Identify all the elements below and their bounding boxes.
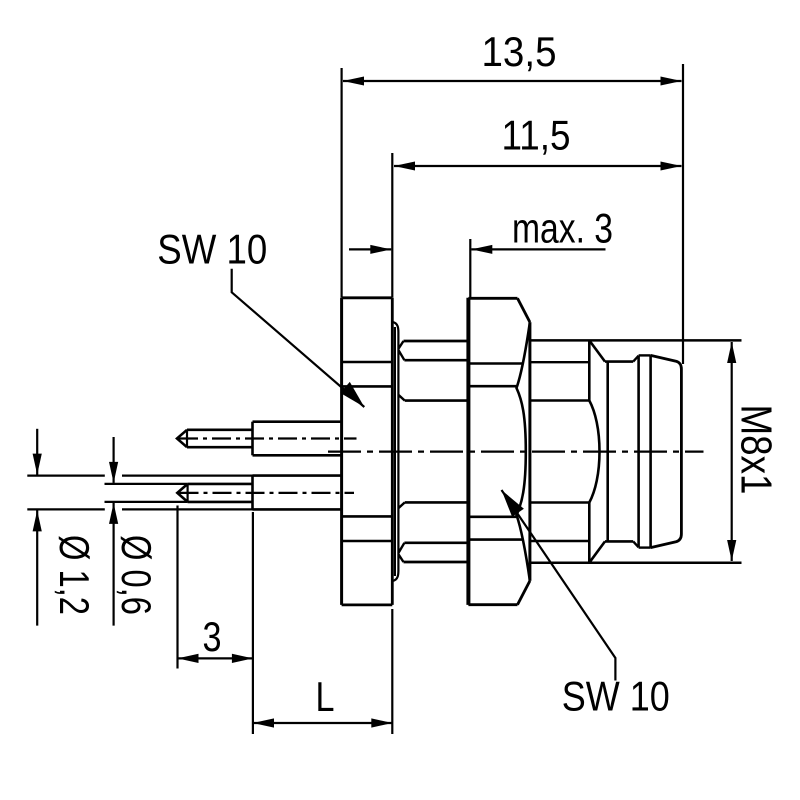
connector face outline [651, 355, 682, 547]
svg-text:max. 3: max. 3 [512, 205, 613, 252]
extension line right of 13,5 / 11,5 dimensions [682, 64, 684, 364]
lock nut bottom corner chamfer [518, 581, 530, 605]
lock nut top edge [468, 297, 517, 300]
svg-text:M8x1: M8x1 [732, 405, 781, 495]
flange left edge [340, 298, 343, 605]
flange facet lines [342, 361, 393, 364]
extension line left of 13,5 dimension [341, 68, 343, 298]
svg-text:Ø 0,6: Ø 0,6 [113, 535, 160, 615]
flange right edge [391, 298, 394, 605]
extension lines for pin diameter 0,6 [105, 483, 188, 485]
extension line left of 11,5 dimension [391, 153, 393, 298]
o-ring shoulder verticals [588, 340, 591, 400]
dimension line 3 [178, 657, 253, 659]
svg-text:13,5: 13,5 [482, 28, 557, 75]
body top silhouette / M8 extension [531, 339, 742, 342]
dimension line diameter 1,2 [36, 429, 38, 475]
lower solder pin thick section [253, 474, 342, 477]
tip step diagonals [633, 356, 638, 362]
svg-text:L: L [316, 673, 335, 720]
flange top edge [342, 296, 393, 299]
extension line right of L dimension [391, 609, 393, 734]
svg-text:SW 10: SW 10 [157, 226, 267, 273]
svg-text:11,5: 11,5 [502, 112, 571, 159]
hex nut SW10 (rear) top edge [404, 340, 468, 343]
hex nut rear corner chamfers left [398, 341, 403, 349]
dimension line 11,5 [394, 165, 682, 167]
lock nut chamfer curve [517, 322, 530, 581]
hex nut rear facet lines [404, 359, 467, 362]
svg-text:3: 3 [203, 613, 222, 660]
o-ring groove shoulder lines [530, 399, 589, 401]
tip verticals [637, 356, 640, 548]
lower pin centerline [180, 492, 355, 494]
lock nut top corner chamfer [518, 298, 530, 322]
M8x1 dimension line [731, 342, 733, 561]
extension line right of 3 / left of L dimension [252, 512, 254, 734]
dimension line max. 3 (right tail) [471, 248, 605, 250]
dimension line L [253, 722, 392, 724]
upper solder pin thin section [187, 428, 253, 431]
flange bottom edge [342, 604, 393, 607]
thread crest lines [605, 360, 633, 363]
lock nut bottom edge [468, 603, 517, 606]
sealing washer profile [392, 322, 398, 581]
o-ring bulge arc [589, 401, 599, 503]
lock nut corner vertical [528, 322, 531, 581]
dimension line 13,5 [343, 80, 682, 82]
hex nut SW10 (rear) bottom edge [404, 561, 468, 564]
sealing washer inner line [394, 327, 396, 576]
leader line for lower SW 10 [502, 490, 616, 681]
thread relief vertical [606, 362, 609, 542]
lower pin tip [177, 484, 187, 502]
extension lines for pin diameter 1,2 [27, 475, 105, 477]
svg-text:Ø 1,2: Ø 1,2 [51, 535, 98, 615]
upper solder pin thick section [253, 420, 342, 423]
upper pin centerline [179, 437, 357, 439]
leader line for upper SW 10 [232, 269, 365, 407]
extension line left of 3 dimension [176, 506, 178, 669]
dimension line max. 3 (left tail) [349, 248, 391, 250]
lock nut facet lines [468, 362, 522, 365]
lower solder pin thin section [188, 483, 253, 486]
extension line right of max.3 dimension [469, 239, 471, 297]
dimension line diameter 0,6 [112, 437, 114, 483]
upper pin tip [177, 430, 187, 447]
thread chamfer diagonals [589, 340, 605, 361]
body bottom silhouette / M8 extension [531, 561, 742, 564]
body collar lines [531, 361, 589, 363]
lock nut SW10 left edge (shared with rear nut) [466, 298, 470, 605]
main axis centerline [328, 451, 704, 453]
